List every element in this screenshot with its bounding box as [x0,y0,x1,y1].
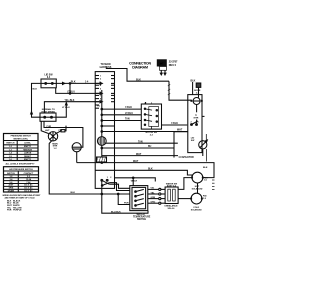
hot water solenoid L1 [192,172,203,183]
part number text [169,61,178,67]
wire V-BLK lid sw to harness [56,82,100,84]
wire TAN mid [105,142,178,144]
long wire BLK lower [95,170,192,177]
wire BLU-BLK bottom [102,180,148,213]
svg-text:4 CAPACITOR: 4 CAPACITOR [178,156,194,159]
svg-text:Y-BLK: Y-BLK [125,107,132,109]
wire LT-BLU [56,88,100,94]
svg-text:HARNESS: HARNESS [100,66,112,69]
logo block [157,59,167,66]
timer motor winding [193,98,200,105]
svg-text:PU: PU [97,106,100,108]
wire WHT to timer [102,131,188,133]
svg-text:LID: LID [191,137,195,139]
svg-text:ASSY 4-6: ASSY 4-6 [167,185,177,188]
svg-text:AUT: AUT [45,129,50,132]
svg-text:1-6: 1-6 [204,180,208,182]
motor switch box [141,104,161,129]
drive motor M1 [48,132,57,141]
svg-text:HIGH SPEED: HIGH SPEED [42,112,56,114]
svg-text:CONTACT: CONTACT [24,172,34,175]
hatched box [97,157,107,162]
timer contacts [191,124,193,126]
wire PUR from S2 [44,121,83,147]
svg-text:TAN-R: TAN-R [131,180,138,183]
svg-text:1: 1 [100,75,102,77]
svg-text:SWITCH: SWITCH [7,173,15,175]
pump motor M2 [72,143,81,152]
svg-text:Y-BLK: Y-BLK [171,123,178,125]
svg-text:DIAGRAM: DIAGRAM [132,65,148,69]
start capacitor C1 in harness [97,137,106,146]
svg-text:YEL-BLK: YEL-BLK [65,100,75,102]
svg-text:TAN: TAN [138,140,143,143]
svg-text:BLK: BLK [203,167,208,169]
svg-text:LT BLU: LT BLU [62,107,70,109]
water temp switch connector P1 [130,186,148,211]
wire BU mid [102,147,174,149]
svg-text:BU: BU [148,146,152,148]
wire WHT mid [102,155,178,157]
svg-text:EMPTY: EMPTY [24,159,32,161]
lid switch S1 [41,79,56,88]
enclosure outer lines [174,132,188,158]
svg-text:DRAIN: DRAIN [8,190,15,193]
wire valve block to cold solenoid [178,198,191,200]
unbalance switch S2 [40,113,56,121]
svg-text:ALL LEVELS SHOWN EMPTY: ALL LEVELS SHOWN EMPTY [6,162,36,165]
svg-text:MT: MT [160,61,164,65]
svg-text:1: 1 [107,177,109,179]
terminal dashes right edge [212,180,215,190]
svg-text:EMPTY: EMPTY [24,146,32,148]
wire BLK plug to motor protector [169,81,192,100]
notes [3,194,42,212]
svg-text:SW: SW [191,140,195,142]
svg-text:BLU-BLK: BLU-BLK [111,211,121,213]
wire hot to cold solenoid [197,183,199,193]
timer box T1 [188,95,202,153]
stepped wires to temp switch [109,184,130,188]
wire TAN-R across top of temp switch [115,178,156,182]
svg-text:1: 1 [198,122,200,124]
svg-text:115 V AC: 115 V AC [24,187,33,190]
svg-text:2: 2 [110,177,112,179]
wire S2 to motor [41,121,49,133]
svg-text:SPIN: SPIN [9,188,14,190]
svg-text:TAN: TAN [125,118,130,121]
svg-text:BLK: BLK [71,192,76,194]
start winding box [61,130,65,132]
svg-text:VIO: VIO [151,188,155,190]
long wire WHT upper [77,163,214,178]
svg-text:LT-BLU: LT-BLU [125,113,133,115]
svg-text:SW 4-6: SW 4-6 [168,207,176,210]
svg-text:WATER LEVEL: WATER LEVEL [13,137,28,140]
power cord plug [160,67,167,71]
wire valve block to hot solenoid [178,178,192,190]
svg-text:LT BLU: LT BLU [67,92,75,94]
temp switch contacts [135,189,144,206]
svg-text:WIRING SHOWN WITH MACHINE AT R: WIRING SHOWN WITH MACHINE AT REST [3,194,42,197]
harness internal bus [101,90,103,120]
lid switch contacts in harness [107,177,112,179]
wire Y-BLK to timer motor [162,124,188,126]
svg-text:115 V AC: 115 V AC [24,184,33,187]
timer lid sw [191,137,195,142]
svg-text:SOLENOID: SOLENOID [191,210,202,212]
svg-text:RESET: RESET [24,156,32,158]
svg-text:PUR PURPLE: PUR PURPLE [7,210,22,212]
svg-text:1-2: 1-2 [53,148,57,150]
svg-text:MEDIUM: MEDIUM [23,149,32,151]
svg-text:PUR: PUR [124,203,129,205]
wires harness to motor switch [102,108,142,110]
wire PUR short [118,194,130,205]
central harness connector box [95,72,114,189]
svg-text:SWITCH: SWITCH [6,143,15,145]
svg-text:SWITCH: SWITCH [137,219,146,221]
svg-text:2-3: 2-3 [150,134,154,136]
svg-text:MTR: MTR [194,118,199,120]
svg-text:115 V AC: 115 V AC [24,190,33,193]
wire lid sw loop left [32,83,42,117]
label above harness box [100,63,112,69]
harness pins left column [95,76,114,109]
wires temp switch to valve switch [148,188,159,190]
svg-text:LARGE: LARGE [24,152,32,155]
svg-text:BLK: BLK [33,89,38,91]
svg-text:ORG: ORG [151,202,156,204]
svg-text:AND TIMER AT START OF CYCLE: AND TIMER AT START OF CYCLE [5,197,36,200]
thermal protector [196,83,201,87]
valve switch block [165,187,178,204]
svg-text:BLK: BLK [71,82,76,84]
svg-text:PRESSURE SWITCH: PRESSURE SWITCH [11,136,32,138]
svg-text:LEVEL: LEVEL [24,143,31,145]
svg-text:AIR PRESSURE SWITCH: AIR PRESSURE SWITCH [9,168,33,171]
wire LT BLU unbalance up [56,104,66,117]
svg-text:GRN: GRN [151,197,156,199]
svg-text:BLK: BLK [136,78,141,81]
svg-text:WHT: WHT [133,161,139,163]
svg-text:2: 2 [100,79,102,81]
svg-text:REV. 0: REV. 0 [169,64,177,67]
wire pump down to long wire [76,152,78,163]
title CONNECTION DIAGRAM [129,61,151,69]
wire motor to bottom loop [49,141,130,194]
wire BLK from plug to harness box [106,69,169,82]
svg-text:2: 2 [191,122,193,124]
svg-text:12-64: 12-64 [26,178,32,181]
cold water solenoid L2 [191,193,202,204]
svg-text:1-5: 1-5 [203,198,207,200]
svg-text:AGIT: AGIT [9,184,15,187]
pin labels [97,75,102,107]
svg-text:WHT: WHT [136,154,142,156]
pressure switch table [4,134,39,161]
svg-text:BLK: BLK [148,169,153,171]
motor switch table [4,167,39,192]
svg-text:PUR: PUR [47,126,52,128]
wire YEL-BLK [44,102,100,113]
